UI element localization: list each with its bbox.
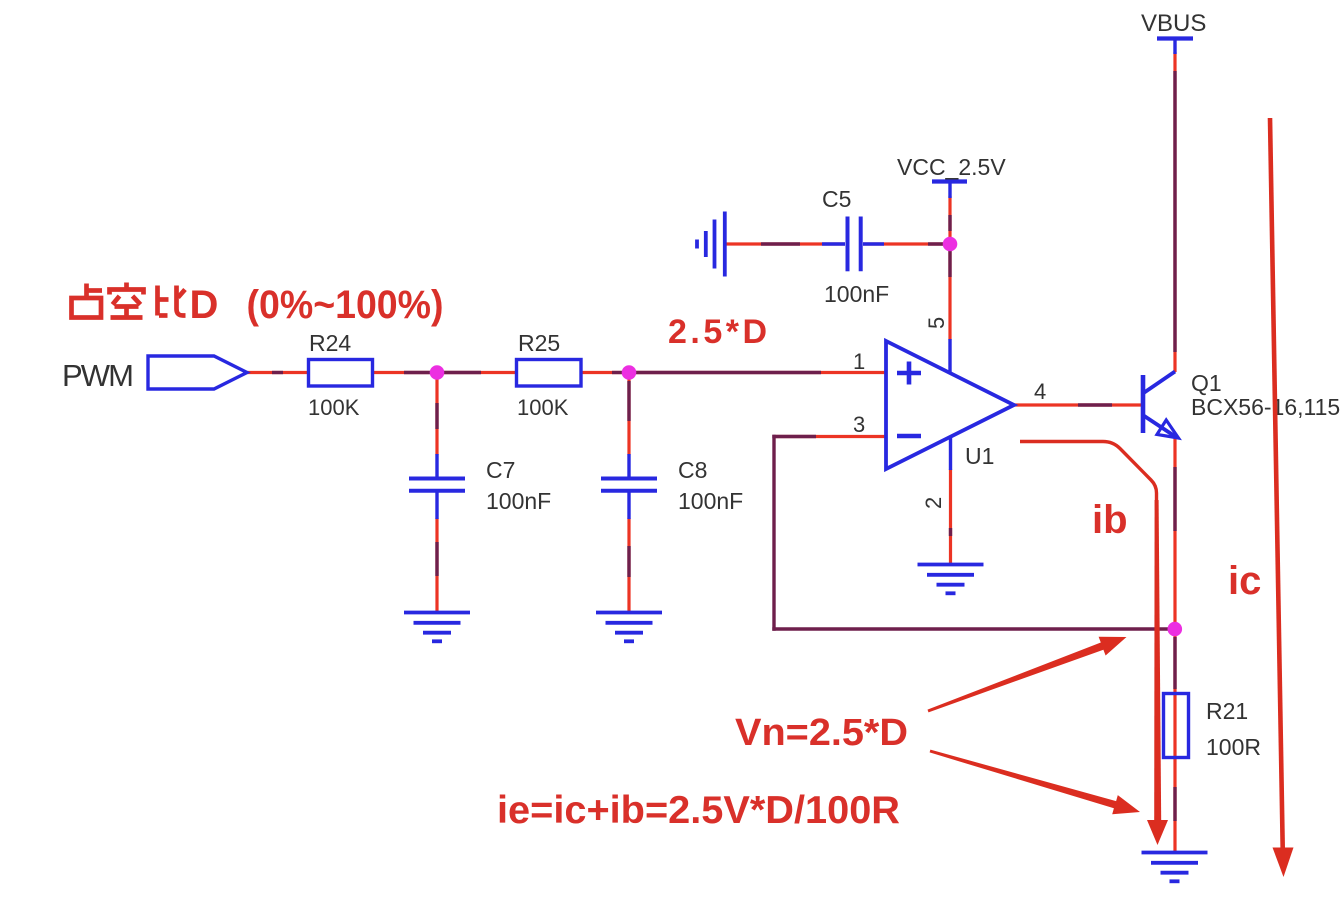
wire VBUS to Q1 collector <box>1173 52 1176 372</box>
wire R24 to node A <box>372 371 437 374</box>
ground below C8 <box>596 611 662 615</box>
svg-text:R25: R25 <box>518 330 560 356</box>
svg-text:R21: R21 <box>1206 698 1248 724</box>
svg-text:Vn=2.5*D: Vn=2.5*D <box>735 712 908 754</box>
wire C7 lower lead to ground <box>435 518 438 612</box>
svg-text:2: 2 <box>921 497 946 509</box>
annotation title 占空比D (0%~100%) <box>72 283 186 318</box>
svg-text:ic: ic <box>1228 559 1261 603</box>
wire op-amp pin 4 to Q1 base <box>1014 403 1143 406</box>
wire op-amp pin 2 to ground <box>949 469 952 563</box>
wire AGND to C5 left plate <box>726 242 845 245</box>
svg-text:(0%~100%): (0%~100%) <box>247 283 444 327</box>
arrowhead of ic arrow <box>1273 848 1294 878</box>
pin 5 blue stub <box>948 339 951 373</box>
svg-text:BCX56-16,115: BCX56-16,115 <box>1191 394 1340 420</box>
ground below C7 <box>404 611 470 615</box>
svg-text:C5: C5 <box>822 186 851 212</box>
ground left of C5 (rotated) <box>723 212 727 277</box>
svg-text:Q1: Q1 <box>1191 370 1222 396</box>
svg-text:C7: C7 <box>486 457 515 483</box>
arrowhead of ib path <box>1147 820 1168 845</box>
svg-text:100nF: 100nF <box>824 281 889 307</box>
wire C7 upper lead <box>435 373 438 456</box>
annotation ib current path line <box>1020 442 1157 511</box>
svg-text:2.5*D: 2.5*D <box>668 313 767 351</box>
wire feedback left vertical <box>772 435 775 631</box>
power VBUS symbol <box>1157 36 1193 40</box>
svg-text:VBUS: VBUS <box>1141 10 1206 37</box>
wire node C to op-amp pin 5 <box>948 244 951 340</box>
wire pin 3 horizontal <box>774 435 886 438</box>
wire R25 to node B <box>581 371 629 374</box>
svg-text:ie=ic+ib=2.5V*D/100R: ie=ic+ib=2.5V*D/100R <box>497 789 900 832</box>
transistor Q1 <box>1141 375 1146 433</box>
wire VCC symbol to node C <box>948 196 951 244</box>
power VCC_2.5V symbol <box>932 179 967 183</box>
svg-text:1: 1 <box>853 349 865 374</box>
wire feedback bottom horizontal <box>772 627 1175 630</box>
capacitor C7 <box>435 454 438 477</box>
ground below R21 <box>1142 851 1208 855</box>
svg-text:100nF: 100nF <box>486 488 551 514</box>
annotation arrow Vn to ground <box>930 750 1140 815</box>
node C junction <box>943 237 958 252</box>
svg-text:VCC_2.5V: VCC_2.5V <box>897 154 1006 180</box>
resistor R21 <box>1164 694 1189 758</box>
svg-text:5: 5 <box>924 317 949 329</box>
wire C8 lower lead to ground <box>627 518 630 612</box>
node Vn junction <box>1168 622 1183 637</box>
port PWM <box>148 356 247 389</box>
svg-text:R24: R24 <box>309 330 351 356</box>
node A junction <box>430 365 445 380</box>
capacitor C5 <box>846 217 850 272</box>
svg-text:100nF: 100nF <box>678 488 743 514</box>
svg-text:ib: ib <box>1092 498 1128 542</box>
svg-text:100R: 100R <box>1206 734 1261 760</box>
resistor R24 <box>309 360 373 387</box>
wire C8 upper lead <box>627 373 630 456</box>
wire node B to op-amp pin 1 <box>629 371 886 374</box>
annotation arrow Vn to node <box>928 637 1127 713</box>
wire Q1 emitter down through R21 to ground <box>1173 437 1176 852</box>
svg-text:4: 4 <box>1034 379 1046 404</box>
svg-text:C8: C8 <box>678 457 707 483</box>
svg-text:PWM: PWM <box>62 358 134 393</box>
op-amp U1 <box>886 341 1014 469</box>
svg-text:U1: U1 <box>965 443 994 469</box>
svg-text:100K: 100K <box>308 395 360 420</box>
wire C5 right plate to node C <box>863 242 950 245</box>
svg-text:100K: 100K <box>517 395 569 420</box>
wire PWM port to R24 <box>246 371 310 374</box>
node B junction <box>622 365 637 380</box>
annotation ic arrow (long) <box>1270 118 1283 848</box>
ground below op-amp pin 2 <box>918 563 984 567</box>
pin 2 blue stub <box>949 437 952 470</box>
svg-text:D: D <box>190 283 219 327</box>
svg-text:3: 3 <box>853 412 865 437</box>
capacitor C8 <box>627 454 630 477</box>
wire node A to R25 <box>437 371 517 374</box>
resistor R25 <box>517 360 582 387</box>
